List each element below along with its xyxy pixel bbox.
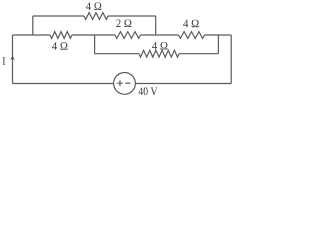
label 4 ohm mid-left below resistor (52, 42, 67, 50)
wire: top branch left lead (33, 15, 84, 17)
label I (3, 57, 6, 65)
voltage source minus terminal (125, 82, 130, 84)
wire: top branch right vertical (155, 16, 157, 35)
wire: mid rail between R3 and R4 (141, 34, 179, 36)
label 2 ohm (116, 20, 131, 28)
label 4 ohm lower branch (152, 42, 167, 50)
wire: lower branch right vertical (217, 35, 219, 54)
label 4 ohm top (86, 3, 101, 11)
resistor R3 2ohm (115, 32, 141, 39)
wire: bottom left segment (13, 83, 114, 85)
voltage source V1 circle (114, 73, 136, 95)
resistor R5 4ohm lower (139, 50, 179, 57)
label 4 ohm mid-right (183, 20, 198, 28)
current arrow I head (10, 56, 15, 60)
wire: lower branch left vertical (94, 35, 96, 54)
wire: mid rail between R2 and R3 (72, 34, 115, 36)
wire: outer left vertical (12, 35, 14, 84)
wire: mid rail right (205, 34, 232, 36)
wire: outer right vertical (230, 35, 232, 84)
wire: lower branch left lead (95, 53, 139, 55)
resistor R1 4ohm top (84, 13, 108, 20)
wire: bottom right segment (135, 83, 231, 85)
resistor R2 4ohm mid-left (50, 32, 72, 39)
wire: lower branch right lead (179, 53, 218, 55)
voltage source plus terminal (117, 80, 123, 86)
wire: top branch left vertical (32, 16, 34, 35)
wire: top branch right lead (108, 15, 156, 17)
wire: mid rail left (13, 34, 51, 36)
label 40 V (139, 87, 158, 95)
resistor R4 4ohm mid-right (179, 32, 205, 39)
